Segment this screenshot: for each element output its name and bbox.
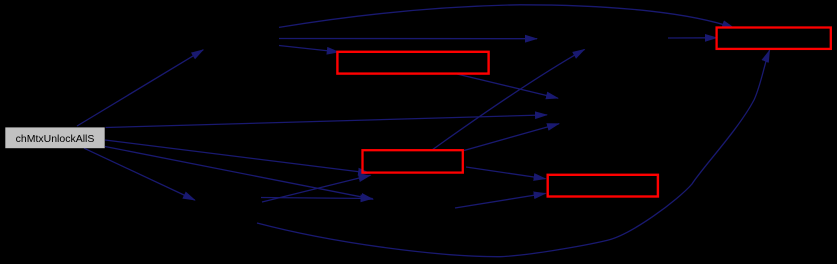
wire: node to center red box SW xyxy=(105,140,370,173)
wire: big bottom swoop to top-right red box xyxy=(257,50,770,256)
wire: node down to hidden node bottom-left xyxy=(84,148,195,200)
wire: horizontal arrow into top-right red box xyxy=(668,37,717,39)
wire: hidden bottom node horizontal xyxy=(261,198,373,199)
wire: node to hidden node right of center box xyxy=(105,147,373,200)
wire: node to hidden node upper-left xyxy=(77,50,203,126)
wire: horizontal arrow mid-top xyxy=(279,38,537,40)
truncated node (red) top-right xyxy=(717,28,831,49)
truncated node (red) lower-right xyxy=(548,175,658,197)
wire: short arrow into mid red box NW xyxy=(279,46,339,53)
svg-text:chMtxUnlockAllS: chMtxUnlockAllS xyxy=(16,133,95,145)
wire: center red box steep up xyxy=(432,49,585,150)
node chMtxUnlockAllS xyxy=(5,127,104,148)
wire: node long shallow to middle hidden node xyxy=(106,115,548,128)
truncated node (red) upper-middle xyxy=(337,52,488,74)
truncated node (red) center xyxy=(363,150,463,172)
wire: top long curve to top-right red box xyxy=(279,5,734,28)
wire: center red box to hidden node NE xyxy=(464,124,559,151)
wire: mid red box to hidden node xyxy=(457,74,558,98)
wire: center red box to lower-right red box upper xyxy=(466,167,546,179)
wire: hidden node to lower-right red box lower xyxy=(455,193,546,208)
wire: hidden bottom node to center red box SW xyxy=(262,175,371,202)
